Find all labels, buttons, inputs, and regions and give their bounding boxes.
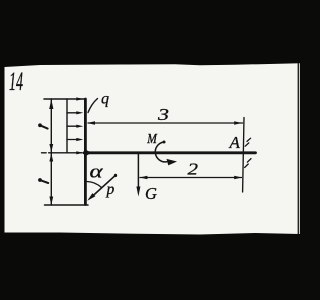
svg-text:2: 2: [188, 160, 199, 179]
angle arc alpha: [87, 182, 102, 188]
arrowhead right of dim 3: [234, 121, 242, 124]
paper: [5, 63, 301, 234]
arrowhead left of dim 2: [140, 176, 148, 179]
arrowhead up at top line: [49, 99, 53, 109]
force P arrowhead: [87, 193, 95, 201]
arrowhead left of dim 3: [87, 121, 95, 124]
top line: [44, 98, 85, 100]
load arrowhead rung 2: [76, 111, 83, 114]
dim 3 line: [88, 122, 243, 124]
junction blob: [84, 149, 93, 158]
force G arrowhead: [136, 187, 140, 197]
right edge scan line: [297, 63, 299, 234]
load arrowhead rung 4: [76, 138, 83, 141]
moment arc: [155, 142, 167, 162]
arrowhead down at bottom line: [49, 197, 53, 206]
bottom line: [45, 204, 89, 206]
load arrowhead rung 3: [76, 125, 83, 128]
extension line at A: [243, 118, 244, 193]
load rung 4: [67, 139, 78, 141]
arrowhead up at middle: [49, 153, 53, 161]
q leader line: [88, 99, 98, 113]
break mark below beam: [245, 159, 251, 168]
svg-text:q: q: [101, 91, 109, 108]
label 1 lower: [38, 178, 42, 182]
load arrowhead rung 5: [76, 151, 83, 154]
force P start blob: [114, 174, 117, 177]
load arrowhead rung 1: [76, 97, 83, 100]
svg-text:G: G: [145, 184, 157, 203]
moment arc start blob: [163, 141, 166, 144]
svg-text:M: M: [146, 131, 158, 146]
svg-text:A: A: [229, 133, 241, 152]
moment arrowhead: [167, 159, 178, 166]
load rung 3: [67, 125, 78, 127]
middle line: [42, 152, 83, 154]
svg-text:14: 14: [9, 67, 23, 96]
force P line: [91, 175, 116, 197]
label 1 upper: [38, 123, 42, 127]
svg-text:3: 3: [157, 105, 169, 124]
dimension line left vertical: [50, 99, 52, 205]
distributed load left line: [66, 99, 68, 153]
force G line: [137, 153, 139, 188]
break mark above beam: [245, 138, 250, 146]
load rung 2: [67, 112, 78, 114]
arrowhead down at middle: [49, 144, 53, 152]
arrowhead right of dim 2: [234, 176, 242, 179]
svg-text:α: α: [90, 162, 104, 183]
beam (thick horizontal): [84, 151, 256, 154]
dim 2 line: [140, 177, 242, 179]
svg-text:p: p: [106, 181, 115, 198]
column bar (thick vertical): [84, 99, 87, 205]
